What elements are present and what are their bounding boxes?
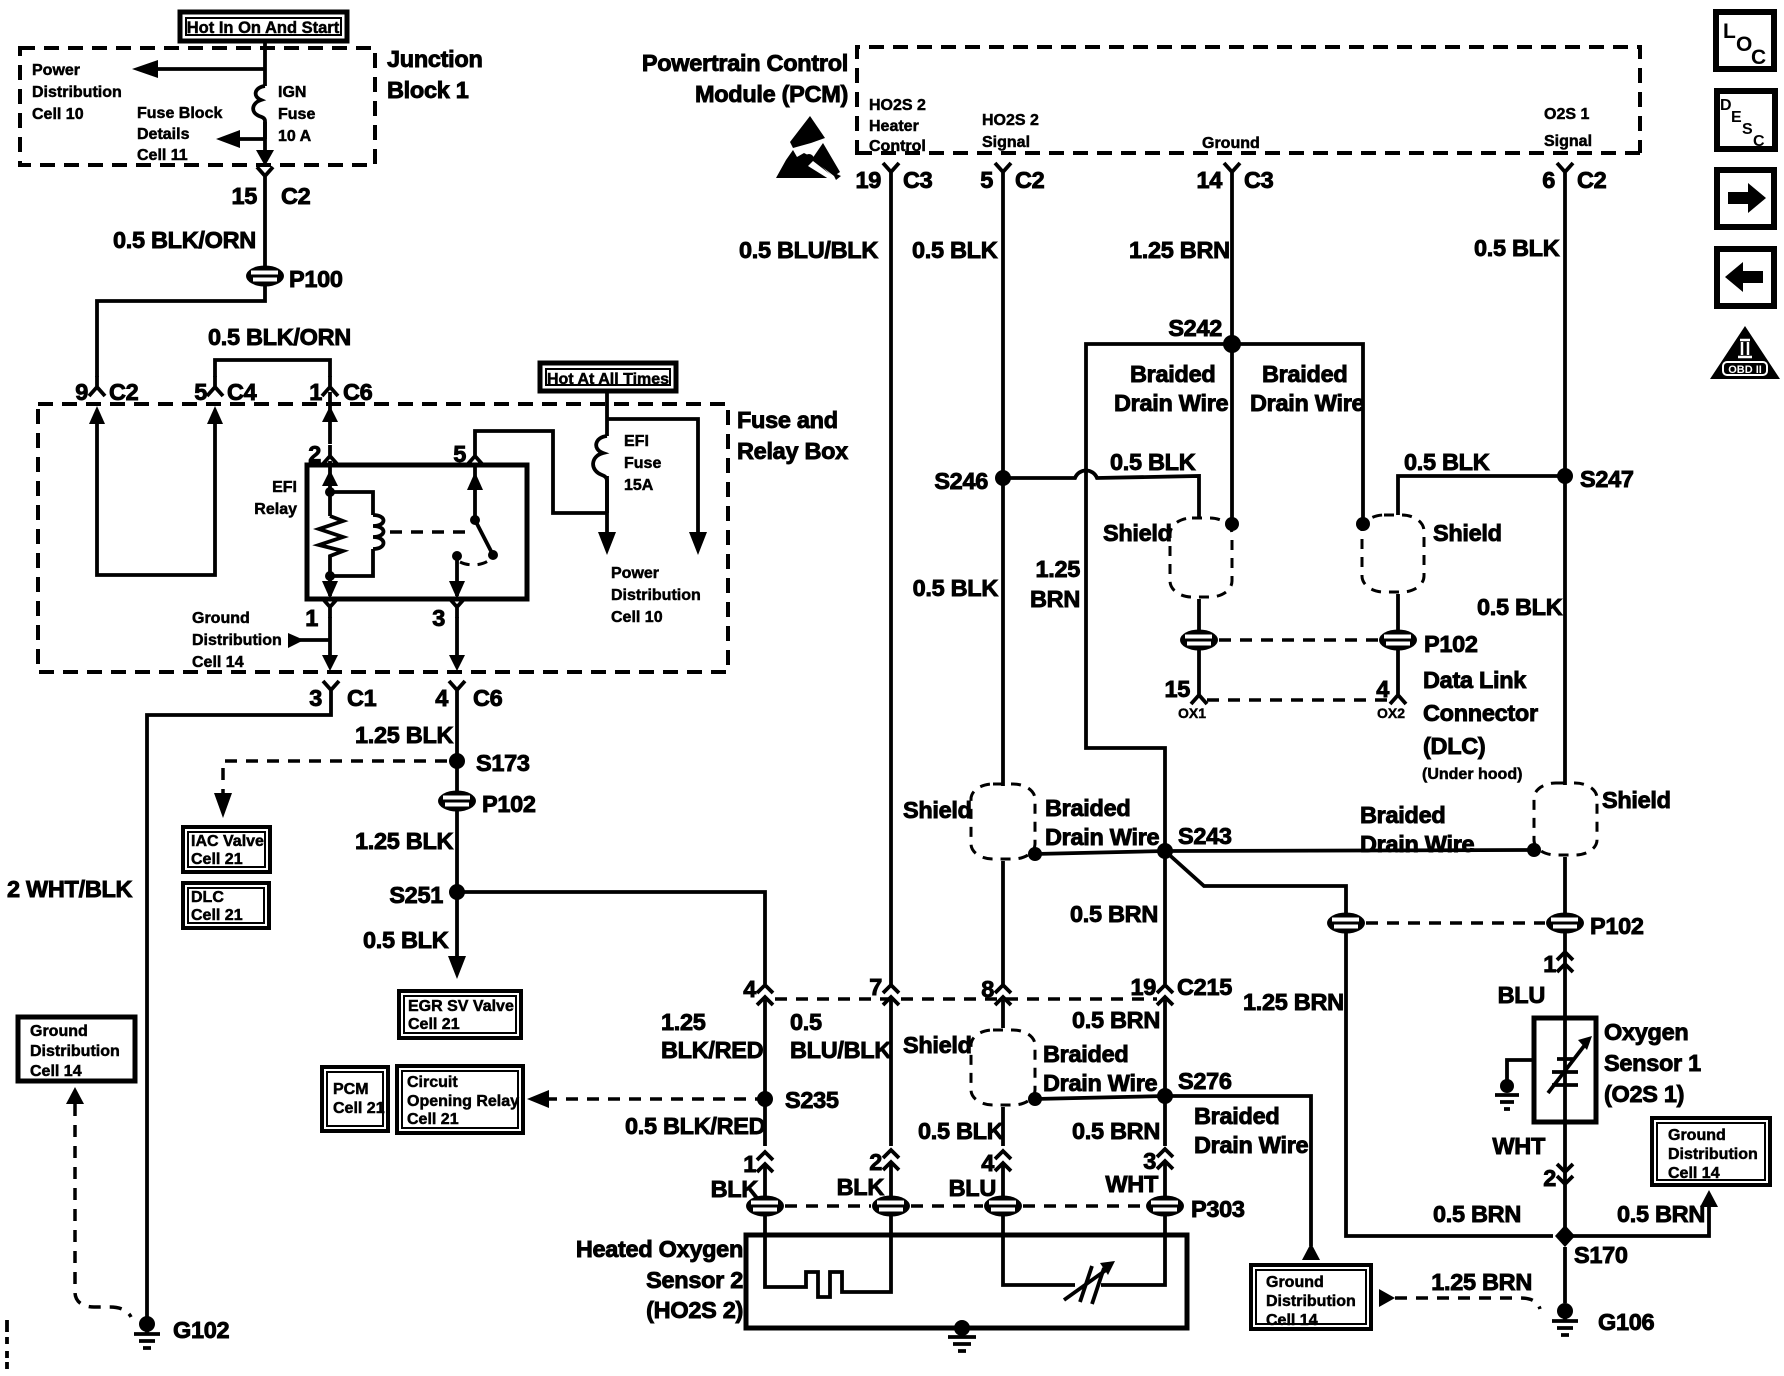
- svg-text:Heater: Heater: [869, 118, 919, 135]
- wire braided drain lower shield to S276: [1028, 1092, 1165, 1106]
- svg-text:Opening Relay: Opening Relay: [407, 1093, 519, 1110]
- relay resistor zigzag: [319, 516, 343, 576]
- label 1.25 BRN: [1431, 1269, 1532, 1295]
- pin 5 C4: [194, 376, 256, 405]
- svg-text:Circuit: Circuit: [407, 1074, 458, 1091]
- wire 2 WHT/BLK from 3 C1 to G102: [147, 701, 331, 1318]
- svg-text:Braided: Braided: [1045, 795, 1130, 821]
- relay switch common wire to pin 3: [449, 551, 465, 599]
- icon OBD II triangle: [1710, 326, 1780, 379]
- page edge marks: [5, 1320, 9, 1369]
- svg-text:C1: C1: [347, 685, 377, 711]
- svg-text:C6: C6: [473, 685, 503, 711]
- wire 1.25 BLK from 4 C6 to S173: [455, 701, 459, 761]
- label BLU: [949, 1175, 996, 1201]
- svg-text:C215: C215: [1177, 974, 1232, 1000]
- relay pin 2: [308, 441, 338, 467]
- wire braided drain shield to S243: [1028, 847, 1165, 861]
- svg-text:Details: Details: [137, 126, 190, 143]
- label 0.5 BLK (branch): [1477, 594, 1563, 620]
- pin 19 C3: [855, 163, 932, 193]
- O2S1 sensing element: [1548, 1018, 1592, 1122]
- label box Ground Distribution Cell 14 (left): [18, 1017, 135, 1081]
- label IGN Fuse 10 A: [278, 84, 315, 145]
- svg-text:Ground: Ground: [30, 1023, 88, 1040]
- label box DLC Cell 21: [183, 883, 269, 928]
- label 1.25 BLK/RED: [661, 1009, 763, 1063]
- label Braided Drain Wire (S276 branch): [1194, 1103, 1309, 1158]
- relay switch: dashed link from coil: [390, 530, 468, 534]
- svg-text:4: 4: [1376, 676, 1389, 702]
- svg-text:C2: C2: [1577, 167, 1607, 193]
- connector P102 (bottom left half): [1327, 913, 1365, 934]
- wire S243 right to O2S1 shield: [1165, 843, 1541, 857]
- node S243: [1157, 823, 1232, 859]
- HO2S2 ground: [948, 1320, 976, 1351]
- svg-text:S247: S247: [1580, 466, 1634, 492]
- relay switch upper contact wire to pin 5: [467, 466, 483, 520]
- label Braided Drain Wire (right): [1250, 361, 1365, 416]
- svg-text:0.5 BLK: 0.5 BLK: [1477, 594, 1563, 620]
- arrow to power distribution: [132, 60, 265, 78]
- svg-text:0.5 BRN: 0.5 BRN: [1070, 901, 1158, 927]
- wire 0.5 BLU/BLK from 19 C3 down: [889, 183, 893, 985]
- svg-text:Ground: Ground: [1668, 1127, 1726, 1144]
- wire 0.5 BRN S243 to C215 pin 19: [1163, 851, 1167, 984]
- svg-text:4: 4: [435, 685, 448, 711]
- svg-text:DLC: DLC: [191, 889, 224, 906]
- wire relay pin 3 to connector 4 C6, arrow down: [449, 617, 465, 671]
- node S276: [1157, 1068, 1232, 1104]
- label Data Link Connector (DLC) (Under hood): [1422, 667, 1538, 783]
- label 0.5 BRN (right): [1617, 1201, 1705, 1227]
- svg-text:0.5 BRN: 0.5 BRN: [1072, 1118, 1160, 1144]
- wire 1.25 BLK P102 to S251: [455, 811, 459, 892]
- wire EFI fuse bottom junction, arrow down: [598, 476, 616, 555]
- label 0.5 BLK: [363, 927, 449, 953]
- label 1.25 BLK: [355, 828, 453, 854]
- svg-text:2: 2: [869, 1149, 882, 1175]
- svg-text:1: 1: [305, 605, 318, 631]
- label 0.5 BLK/ORN (second): [208, 324, 351, 350]
- svg-text:15A: 15A: [624, 477, 654, 494]
- svg-text:Ground: Ground: [192, 610, 250, 627]
- connector P303 row: [746, 1196, 1245, 1223]
- svg-text:L: L: [1723, 20, 1736, 43]
- svg-text:0.5 BLK: 0.5 BLK: [363, 927, 449, 953]
- pin 4 P303: [981, 1150, 1011, 1176]
- svg-text:Signal: Signal: [982, 134, 1030, 151]
- label 0.5 BLK: [918, 1118, 1004, 1144]
- svg-text:Drain Wire: Drain Wire: [1250, 390, 1365, 416]
- wire IGN fuse to junction block edge, arrow down: [256, 122, 274, 166]
- svg-text:Distribution: Distribution: [30, 1043, 120, 1060]
- svg-text:WHT: WHT: [1105, 1171, 1159, 1197]
- svg-text:O2S 1: O2S 1: [1544, 106, 1589, 123]
- svg-text:S246: S246: [934, 468, 988, 494]
- svg-text:1.25 BLK: 1.25 BLK: [355, 828, 453, 854]
- wire 9 C2 into box, U-link to 5 C4: [89, 406, 223, 575]
- svg-text:Power: Power: [611, 565, 659, 582]
- svg-text:BLK: BLK: [711, 1176, 759, 1202]
- svg-text:E: E: [1731, 109, 1742, 126]
- arrow to fuse block details: [216, 130, 265, 148]
- ground G102: [134, 1316, 230, 1348]
- svg-text:Cell 14: Cell 14: [30, 1063, 82, 1080]
- svg-text:Braided: Braided: [1262, 361, 1347, 387]
- svg-text:OX1: OX1: [1178, 705, 1206, 721]
- wire 0.5 BLK from 5 C2 down to S246: [1001, 183, 1005, 478]
- svg-text:0.5 BRN: 0.5 BRN: [1617, 1201, 1705, 1227]
- svg-text:C2: C2: [109, 379, 139, 405]
- connector P102 (bottom right half): [1546, 913, 1644, 940]
- wire S170 to G106: [1563, 1247, 1567, 1303]
- svg-text:Sensor 1: Sensor 1: [1604, 1050, 1701, 1076]
- svg-text:1: 1: [743, 1151, 756, 1177]
- SECTION F: ground net S242: [913, 315, 1634, 985]
- pin 2 P303: [869, 1149, 899, 1175]
- pin 4 C215: [743, 976, 773, 1005]
- svg-text:15: 15: [231, 183, 257, 209]
- SECTION G: S243 row: [903, 783, 1671, 1236]
- svg-text:6: 6: [1542, 167, 1555, 193]
- svg-text:EGR SV Valve: EGR SV Valve: [408, 998, 514, 1015]
- wire S251 down to EGR SV valve, arrow: [448, 892, 466, 979]
- svg-text:HO2S 2: HO2S 2: [982, 112, 1039, 129]
- svg-text:P102: P102: [1424, 631, 1478, 657]
- SECTION H: C215 and P303: [625, 851, 1320, 1260]
- pin 19 C215: [1130, 974, 1232, 1005]
- svg-text:14: 14: [1196, 167, 1222, 193]
- label Powertrain Control Module (PCM): [642, 50, 848, 107]
- pin 6 C2: [1542, 163, 1606, 193]
- svg-text:3: 3: [309, 685, 322, 711]
- arrow up into ground distribution box: [66, 1087, 84, 1104]
- fuse EFI 15A: [593, 436, 607, 513]
- svg-text:C2: C2: [1015, 167, 1045, 193]
- svg-text:HO2S 2: HO2S 2: [869, 97, 926, 114]
- label Power Distribution Cell 10: [32, 62, 122, 123]
- SECTION J: O2S1 and S170: [1251, 476, 1770, 1335]
- svg-text:1.25 BRN: 1.25 BRN: [1129, 237, 1230, 263]
- label box "Hot In On And Start": [180, 12, 347, 41]
- node S170: [1555, 1225, 1628, 1268]
- connector C215 dashed line: [775, 997, 1157, 1001]
- SECTION A: top-left junction block: [20, 12, 483, 405]
- label 0.5 BLK: [912, 237, 998, 263]
- SECTION C: left ground column: [7, 701, 331, 1348]
- label 0.5 BLK/RED: [625, 1113, 765, 1139]
- junction block 1 dashed box: [20, 48, 375, 165]
- pin 8 C215: [981, 976, 1011, 1005]
- svg-text:10 A: 10 A: [278, 128, 312, 145]
- svg-text:Drain Wire: Drain Wire: [1114, 390, 1229, 416]
- svg-text:Distribution: Distribution: [192, 632, 282, 649]
- connector P102 OX1: [1180, 630, 1218, 651]
- svg-text:1.25 BRN: 1.25 BRN: [1243, 989, 1344, 1015]
- label Ground Distribution Cell 14 (fuse box): [192, 610, 282, 671]
- label EFI Relay: [254, 479, 297, 518]
- svg-text:Distribution: Distribution: [611, 587, 701, 604]
- svg-text:Oxygen: Oxygen: [1604, 1019, 1688, 1045]
- label 0.5 BRN above C215: [1072, 1007, 1160, 1033]
- label 0.5 BLK: [913, 575, 999, 601]
- label Braided Drain Wire: [1045, 795, 1160, 850]
- label Fuse Block Details Cell 11: [137, 105, 222, 164]
- svg-text:19: 19: [1130, 974, 1156, 1000]
- svg-text:0.5 BLU/BLK: 0.5 BLU/BLK: [739, 237, 878, 263]
- svg-text:Module (PCM): Module (PCM): [695, 81, 848, 107]
- svg-text:P102: P102: [482, 791, 536, 817]
- label 1.25 BLK: [355, 722, 453, 748]
- svg-text:0.5 BLK: 0.5 BLK: [913, 575, 999, 601]
- label 0.5 BRN (left): [1433, 1201, 1521, 1227]
- HO2S2 heater element: [765, 1235, 891, 1297]
- fuse IGN 10A: [253, 86, 265, 139]
- svg-text:Distribution: Distribution: [32, 84, 122, 101]
- svg-text:Cell 10: Cell 10: [32, 106, 84, 123]
- connector P100: [246, 266, 343, 293]
- wire relay pin 5 up and right to EFI fuse bottom: [475, 431, 607, 513]
- node S251: [389, 882, 465, 908]
- svg-text:5: 5: [453, 441, 466, 467]
- svg-text:Cell 11: Cell 11: [137, 147, 188, 164]
- svg-text:Hot At All Times: Hot At All Times: [547, 371, 669, 388]
- svg-text:Cell 21: Cell 21: [333, 1100, 385, 1117]
- svg-text:0.5 BLK: 0.5 BLK: [1404, 449, 1490, 475]
- svg-text:Heated Oxygen: Heated Oxygen: [576, 1236, 743, 1262]
- label 0.5 BLK: [1474, 235, 1560, 261]
- svg-text:4: 4: [743, 976, 756, 1002]
- pin 4 OX2: [1376, 650, 1406, 721]
- wire 0.5 BLK from 6 C2 down to S247: [1563, 183, 1567, 476]
- svg-text:Shield: Shield: [1602, 787, 1671, 813]
- relay pin 5: [453, 441, 483, 467]
- svg-text:(DLC): (DLC): [1423, 733, 1485, 759]
- pin 5 C2: [980, 163, 1044, 193]
- svg-text:Braided: Braided: [1360, 802, 1445, 828]
- label BLK: [711, 1176, 759, 1202]
- dashed link between bottom P102 halves: [1366, 921, 1545, 925]
- svg-text:(O2S 1): (O2S 1): [1604, 1081, 1684, 1107]
- wire S242 left to 1.25 BRN drop: [1086, 344, 1232, 851]
- label BLK: [837, 1174, 885, 1200]
- fuse and relay box dashed outline: [38, 404, 728, 672]
- label box Ground Distribution Cell 14 (right): [1652, 1118, 1770, 1185]
- wire 0.5 BLU/BLK pin7 to P303: [889, 1000, 893, 1146]
- label box Circuit Opening Relay Cell 21: [397, 1066, 523, 1133]
- node S173: [449, 750, 530, 776]
- svg-text:0.5: 0.5: [790, 1009, 822, 1035]
- svg-text:19: 19: [855, 167, 881, 193]
- label Braided Drain Wire (right): [1360, 802, 1475, 857]
- svg-text:Fuse: Fuse: [624, 455, 661, 472]
- node S246: [934, 468, 1011, 494]
- svg-text:Cell 21: Cell 21: [191, 907, 243, 924]
- svg-text:3: 3: [432, 605, 445, 631]
- svg-text:7: 7: [869, 974, 882, 1000]
- svg-text:EFI: EFI: [624, 433, 649, 450]
- wire 1.25 BRN from 14 C3 down to S242: [1230, 183, 1234, 344]
- connector P102 OX2: [1379, 630, 1478, 658]
- svg-text:P100: P100: [289, 266, 343, 292]
- svg-text:0.5 BLK/ORN: 0.5 BLK/ORN: [208, 324, 351, 350]
- svg-text:PCM: PCM: [333, 1081, 369, 1098]
- svg-text:D: D: [1720, 97, 1732, 114]
- node S235: [757, 1087, 839, 1113]
- svg-text:2: 2: [1543, 1165, 1556, 1191]
- wire S251 right to C215 pin 4: [457, 892, 765, 984]
- wire 0.5 BLK from S246 down: [1001, 478, 1005, 985]
- svg-text:P102: P102: [1590, 913, 1644, 939]
- svg-text:C3: C3: [903, 167, 933, 193]
- svg-text:G106: G106: [1598, 1309, 1655, 1335]
- ESD warning symbol: [776, 116, 841, 181]
- svg-text:S235: S235: [785, 1087, 839, 1113]
- label 1.25 BRN (two lines): [1030, 556, 1080, 612]
- pin 1 P303: [743, 1151, 773, 1177]
- svg-text:0.5 BLK: 0.5 BLK: [918, 1118, 1004, 1144]
- label Heated Oxygen Sensor 2 (HO2S 2): [576, 1236, 743, 1323]
- svg-text:5: 5: [980, 167, 993, 193]
- wire 1 C6 down to relay pin 2: [322, 392, 338, 444]
- svg-text:Signal: Signal: [1544, 133, 1592, 150]
- label 0.5 BLU/BLK: [790, 1009, 891, 1063]
- label Fuse and Relay Box: [737, 407, 848, 464]
- relay pin 3: [432, 598, 465, 631]
- SECTION B: fuse and relay box: [38, 363, 848, 711]
- svg-text:Power: Power: [32, 62, 80, 79]
- label Shield (right): [1602, 787, 1671, 813]
- svg-text:C4: C4: [227, 379, 257, 405]
- svg-text:Fuse: Fuse: [278, 106, 315, 123]
- svg-text:Distribution: Distribution: [1266, 1293, 1356, 1310]
- wire from Hot In On And Start to IGN fuse: [263, 41, 267, 86]
- dashed branch from S173 to IAC valve: [214, 761, 447, 818]
- wires into P303 connectors: [765, 1163, 1165, 1196]
- svg-text:Ground: Ground: [1202, 135, 1260, 152]
- svg-text:Sensor 2: Sensor 2: [646, 1267, 743, 1293]
- dashed wire from arrow down and right to G102: [75, 1104, 131, 1317]
- wire S247 branch left, down to P102 pin 4: [1398, 476, 1565, 630]
- ground G106: [1552, 1303, 1655, 1335]
- label box PCM Cell 21: [322, 1067, 388, 1131]
- wire BLU P102 to O2S1 pin 1: [1563, 933, 1567, 1018]
- arrow ground distribution to relay pin 1 wire: [288, 633, 330, 648]
- wire braided drain below S242 to left shield: [1225, 344, 1239, 531]
- svg-text:Shield: Shield: [903, 1032, 972, 1058]
- label 0.5 BRN: [1070, 901, 1158, 927]
- svg-text:Data Link: Data Link: [1423, 667, 1527, 693]
- pin 7 C215: [869, 974, 899, 1005]
- svg-text:P303: P303: [1191, 1196, 1245, 1222]
- wire 1.25 BLK/RED pin4 to S235: [763, 1000, 767, 1146]
- shield around O2S1 signal wire: [1534, 783, 1597, 855]
- svg-text:Cell 14: Cell 14: [192, 654, 244, 671]
- shield around DLC wire (left): [1170, 518, 1232, 597]
- wire WHT O2S1 pin 2 to S170: [1563, 1122, 1567, 1236]
- svg-text:IAC Valve: IAC Valve: [191, 833, 264, 850]
- wire braided drain S276 to ground distribution arrow: [1165, 1096, 1320, 1260]
- svg-text:C: C: [1753, 133, 1765, 150]
- svg-text:Drain Wire: Drain Wire: [1043, 1070, 1158, 1096]
- svg-text:IGN: IGN: [278, 84, 306, 101]
- svg-text:Shield: Shield: [1103, 520, 1172, 546]
- svg-text:BRN: BRN: [1030, 586, 1080, 612]
- node S242: [1168, 315, 1241, 353]
- svg-text:BLK/RED: BLK/RED: [661, 1037, 763, 1063]
- shield around HO2S2 signal wire (lower): [971, 1030, 1035, 1105]
- dashed wire ground distribution to G106 with arrow: [1379, 1289, 1540, 1309]
- svg-text:Relay: Relay: [254, 501, 297, 518]
- EFI relay box: [307, 465, 527, 599]
- label 0.5 BLU/BLK: [739, 237, 878, 263]
- svg-text:S170: S170: [1574, 1242, 1628, 1268]
- pin 3 C1: [309, 681, 376, 711]
- wire 1.25 BRN from P102 down to S170: [1346, 933, 1553, 1236]
- pin 4 C6: [435, 681, 502, 711]
- svg-text:1: 1: [1543, 951, 1556, 977]
- SECTION K: sidebar icons: [1710, 12, 1780, 379]
- wire 0.5 BLK pin8 to P303: [1001, 1000, 1005, 1146]
- label Shield (upper left): [1103, 520, 1172, 546]
- svg-text:Shield: Shield: [903, 797, 972, 823]
- svg-text:BLU: BLU: [949, 1175, 996, 1201]
- dashed wire S235 to circuit opening relay with arrow: [527, 1090, 767, 1108]
- wire Hot At All Times down to EFI fuse: [605, 391, 609, 436]
- label HO2S 2 Heater Control: [869, 97, 926, 155]
- svg-text:S: S: [1742, 121, 1753, 138]
- svg-text:(Under hood): (Under hood): [1422, 766, 1522, 783]
- svg-text:BLK: BLK: [837, 1174, 885, 1200]
- svg-text:Cell 14: Cell 14: [1266, 1312, 1318, 1329]
- svg-text:OBD II: OBD II: [1728, 364, 1762, 376]
- label EFI Fuse 15A: [624, 433, 661, 494]
- svg-text:Ground: Ground: [1266, 1274, 1324, 1291]
- svg-text:Fuse Block: Fuse Block: [137, 105, 222, 122]
- label 1.25 BRN: [1243, 989, 1344, 1015]
- SECTION D: middle column S173/S251: [183, 701, 767, 1133]
- svg-text:Fuse and: Fuse and: [737, 407, 838, 433]
- svg-text:S243: S243: [1178, 823, 1232, 849]
- HO2S2 sensing element: [1003, 1235, 1165, 1304]
- SECTION I: HO2S2: [576, 1216, 1187, 1351]
- svg-text:0.5 BLK: 0.5 BLK: [1110, 449, 1196, 475]
- svg-text:OX2: OX2: [1377, 705, 1405, 721]
- SECTION E: PCM top: [642, 47, 1640, 985]
- wires P303 pins into HO2S2 box: [765, 1216, 1165, 1235]
- pin 3 P303: [1143, 1148, 1173, 1174]
- relay coil loop rectangle: [330, 492, 373, 576]
- relay coil bottom node and arrow to pin 1: [322, 571, 338, 599]
- svg-text:9: 9: [75, 379, 88, 405]
- wire S170 to ground distribution box (right): [1565, 1190, 1718, 1236]
- PCM dashed box: [857, 47, 1640, 155]
- svg-text:S251: S251: [389, 882, 443, 908]
- label Power Distribution Cell 10 (fuse box): [611, 565, 701, 626]
- svg-text:Hot In On And Start: Hot In On And Start: [187, 19, 340, 37]
- svg-text:Junction: Junction: [387, 46, 483, 72]
- label box IAC Valve Cell 21: [183, 827, 270, 872]
- svg-text:Cell 14: Cell 14: [1668, 1165, 1720, 1182]
- svg-text:Cell 21: Cell 21: [408, 1016, 460, 1033]
- svg-text:S276: S276: [1178, 1068, 1232, 1094]
- svg-text:Braided: Braided: [1130, 361, 1215, 387]
- label Ground: [1202, 135, 1260, 152]
- wire P100 down, left, down to pin 9 C2: [97, 286, 265, 377]
- relay coil branch: entry arrow and node: [322, 461, 338, 516]
- relay switch arm: [460, 515, 498, 565]
